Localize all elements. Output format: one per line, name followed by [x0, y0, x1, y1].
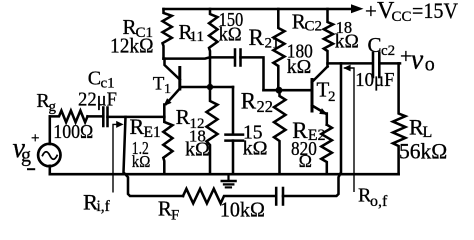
svg-text:R: R [158, 197, 172, 221]
svg-text:10kΩ: 10kΩ [220, 197, 265, 221]
svg-text:kΩ: kΩ [219, 24, 242, 46]
ground symbol bar2 [224, 183, 233, 185]
VCC arrowhead [351, 4, 364, 13]
resistor R11 [209, 9, 218, 87]
annotation arrow Ri,f [113, 124, 117, 192]
svg-text:22: 22 [257, 97, 274, 116]
svg-text:o: o [425, 54, 435, 76]
transistor T1 emitter arrowhead [163, 98, 171, 106]
resistor RC2 [324, 9, 333, 67]
svg-text:+: + [365, 0, 377, 23]
svg-text:2: 2 [328, 89, 336, 105]
svg-text:R: R [249, 25, 265, 50]
svg-text:10μF: 10μF [355, 69, 394, 91]
svg-text:T: T [153, 73, 165, 94]
wire T2 emitter to RE2 [326, 114, 329, 125]
wire T1 base bypass branch [232, 87, 235, 134]
transistor T2 emitter arrowhead [319, 108, 327, 115]
svg-text:o,f: o,f [370, 193, 388, 210]
wire vg top lead [49, 116, 52, 144]
svg-text:R: R [130, 114, 145, 139]
svg-text:g: g [21, 145, 31, 167]
svg-text:i,f: i,f [97, 198, 111, 215]
wire T1 emitter to input node [163, 105, 166, 118]
svg-text:kΩ: kΩ [132, 152, 151, 171]
capacitor interstage left plate [234, 50, 237, 66]
transistor T2 base bar [311, 80, 314, 112]
transistor T2 emitter stroke [312, 106, 326, 114]
svg-text:11: 11 [190, 29, 204, 45]
svg-text:100Ω: 100Ω [53, 121, 93, 143]
svg-text:Ω: Ω [299, 151, 312, 171]
wire interstage cap to T2 base corner [241, 57, 264, 90]
wire Cc2 to vo [379, 62, 400, 65]
svg-text:56kΩ: 56kΩ [399, 139, 447, 164]
label vg minus [27, 168, 35, 170]
wire stage1 collector line [164, 57, 235, 58]
transistor T1 emitter stroke [166, 89, 180, 105]
capacitor Cc2 left plate [372, 53, 375, 77]
node T1 base junction dot [207, 84, 213, 90]
svg-text:v: v [411, 44, 424, 75]
svg-text:=15V: =15V [412, 0, 458, 23]
wire bypass cap to ground rail [232, 141, 235, 174]
ground symbol stem [227, 175, 229, 180]
resistor R22 [274, 90, 286, 173]
capacitor feedback left plate [275, 188, 278, 205]
wire Rg to Cc1 [88, 115, 104, 118]
svg-text:+: + [31, 130, 39, 146]
capacitor bypass top plate [226, 133, 244, 136]
svg-text:C: C [88, 67, 101, 89]
svg-text:22μF: 22μF [78, 88, 117, 110]
resistor RF [183, 189, 276, 204]
capacitor Cc1 right plate [106, 108, 109, 127]
resistor Rg [50, 111, 88, 123]
wire feedback tap from input node [124, 117, 184, 196]
source vg sine [43, 152, 58, 160]
transistor T1 base bar [178, 68, 181, 90]
svg-text:21: 21 [265, 36, 280, 52]
svg-text:1: 1 [164, 82, 171, 97]
wire vg bottom lead [49, 166, 52, 174]
capacitor Cc2 right plate [378, 53, 381, 77]
wire top VCC rail [164, 8, 353, 11]
source vg circle [38, 144, 60, 166]
wire feedback cap to output branch [283, 63, 341, 196]
resistor R12 [207, 87, 218, 173]
svg-text:kΩ: kΩ [335, 32, 359, 53]
svg-text:R: R [241, 88, 257, 113]
capacitor Cc1 left plate [102, 108, 105, 127]
svg-text:F: F [171, 208, 179, 224]
resistor RL [393, 63, 406, 174]
wire input line [108, 116, 165, 119]
resistor RE1 [163, 117, 172, 173]
svg-text:kΩ: kΩ [243, 138, 268, 160]
svg-text:C2: C2 [305, 18, 323, 34]
svg-text:C: C [368, 33, 382, 57]
node T2 base junction dot [276, 87, 283, 94]
wire bottom ground rail [50, 173, 399, 176]
svg-text:c2: c2 [381, 43, 395, 59]
wire T2 collector output line [328, 62, 373, 65]
svg-text:CC: CC [392, 9, 412, 25]
ground symbol bar3 [226, 186, 231, 188]
svg-text:kΩ: kΩ [185, 138, 210, 160]
svg-text:R: R [176, 105, 191, 129]
transistor T2 collector stroke [312, 67, 328, 83]
annotation arrow Ro,f [344, 68, 354, 192]
resistor RC1 [163, 9, 172, 59]
resistor R21 [273, 9, 284, 90]
capacitor feedback right plate [282, 188, 285, 205]
capacitor bypass bottom plate [226, 139, 244, 142]
capacitor interstage right plate [239, 50, 242, 66]
transistor T1 collector stroke [165, 59, 180, 80]
ground symbol bar1 [222, 180, 236, 183]
svg-text:12kΩ: 12kΩ [110, 33, 154, 57]
svg-text:g: g [49, 99, 57, 115]
resistor RE2 [321, 125, 332, 174]
svg-text:kΩ: kΩ [287, 56, 312, 78]
wire T1 base to divider [181, 86, 233, 89]
wire T2 base line [264, 89, 312, 92]
